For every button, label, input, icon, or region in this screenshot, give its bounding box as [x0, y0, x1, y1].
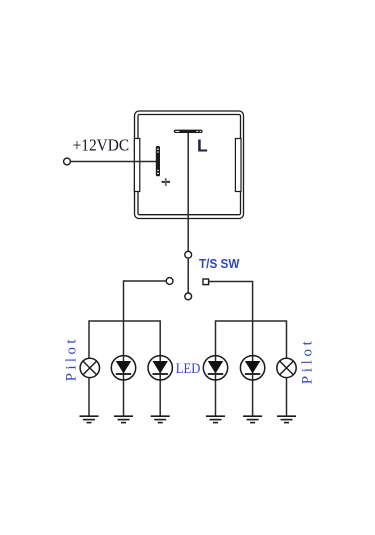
relay + input terminal bar: [156, 146, 160, 176]
wire: relay L terminal down to switch common: [187, 133, 189, 251]
wire: left lamp bus: [89, 320, 160, 322]
flasher relay body (inner case line): [138, 115, 241, 215]
ground (left pilot): [80, 416, 99, 422]
relay L output terminal bar: [174, 130, 203, 133]
svg-text:LED: LED: [176, 361, 201, 377]
svg-text:L: L: [197, 135, 208, 155]
relay mounting tab left: [134, 139, 139, 192]
svg-text:+12VDC: +12VDC: [73, 136, 130, 155]
switch blade (neutral position): [187, 258, 189, 293]
wire: +12VDC node to relay + terminal: [70, 161, 157, 163]
pilot lamp right (circle with X): [277, 358, 296, 377]
ground (LED D1): [114, 416, 133, 422]
node: switch right contact: [203, 279, 209, 285]
node: switch left contact: [166, 278, 173, 285]
ground (right pilot): [277, 416, 296, 422]
flasher relay body (outer case): [135, 111, 244, 219]
LED D4 (right group middle): [240, 356, 264, 380]
svg-text:T/S SW: T/S SW: [199, 256, 240, 271]
node: switch common terminal: [185, 251, 192, 258]
wire: right pilot lamp to ground: [286, 378, 288, 416]
wire: left bus down to left LED 2: [159, 320, 161, 416]
ground (LED D2): [151, 416, 170, 422]
ground (LED D3): [206, 416, 225, 422]
label: + polarity mark: [162, 178, 170, 186]
wire: switch left contact to left lamp feed: [124, 281, 167, 416]
wire: switch right contact to right lamp feed: [209, 282, 253, 417]
wire: right bus down to right pilot lamp: [286, 320, 288, 358]
wire: right lamp bus: [216, 320, 287, 322]
node: switch lower blade terminal: [185, 293, 192, 300]
pilot lamp left (circle with X): [80, 358, 99, 377]
wire: right bus down to right LED 1: [215, 320, 217, 416]
LED D3 (right group left): [203, 356, 227, 380]
relay mounting tab right: [235, 139, 241, 192]
node: +12VDC source terminal circle: [64, 158, 71, 165]
wire: left pilot lamp to ground: [88, 378, 90, 416]
LED D1 (left group middle): [111, 356, 135, 380]
LED D2 (left group right): [148, 356, 172, 380]
wire: left bus down to left pilot lamp: [88, 320, 90, 358]
ground (LED D4): [243, 416, 262, 422]
